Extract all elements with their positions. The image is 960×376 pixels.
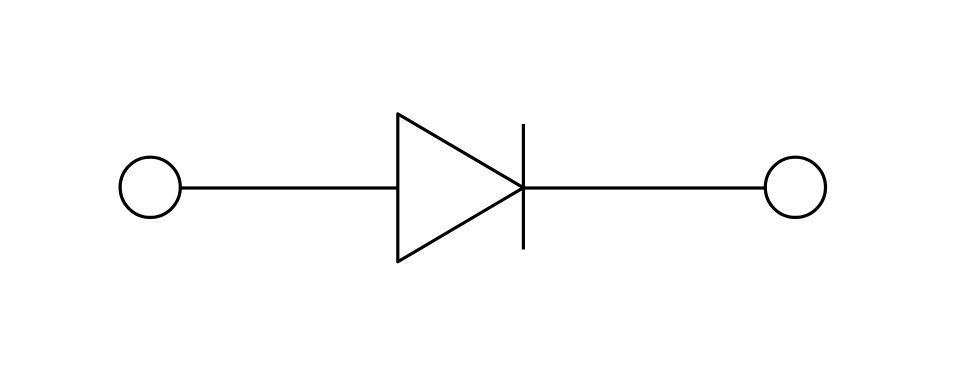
diode D1 cathode bar bbox=[522, 124, 525, 250]
terminal T2 (right open circle, cathode port) bbox=[765, 157, 825, 217]
diode D1 anode triangle bbox=[398, 114, 524, 262]
terminal T1 (left open circle, anode port) bbox=[120, 157, 180, 217]
wire (anode lead: left terminal to diode triangle) bbox=[180, 186, 397, 189]
wire (cathode lead: diode bar to right terminal) bbox=[523, 186, 765, 189]
